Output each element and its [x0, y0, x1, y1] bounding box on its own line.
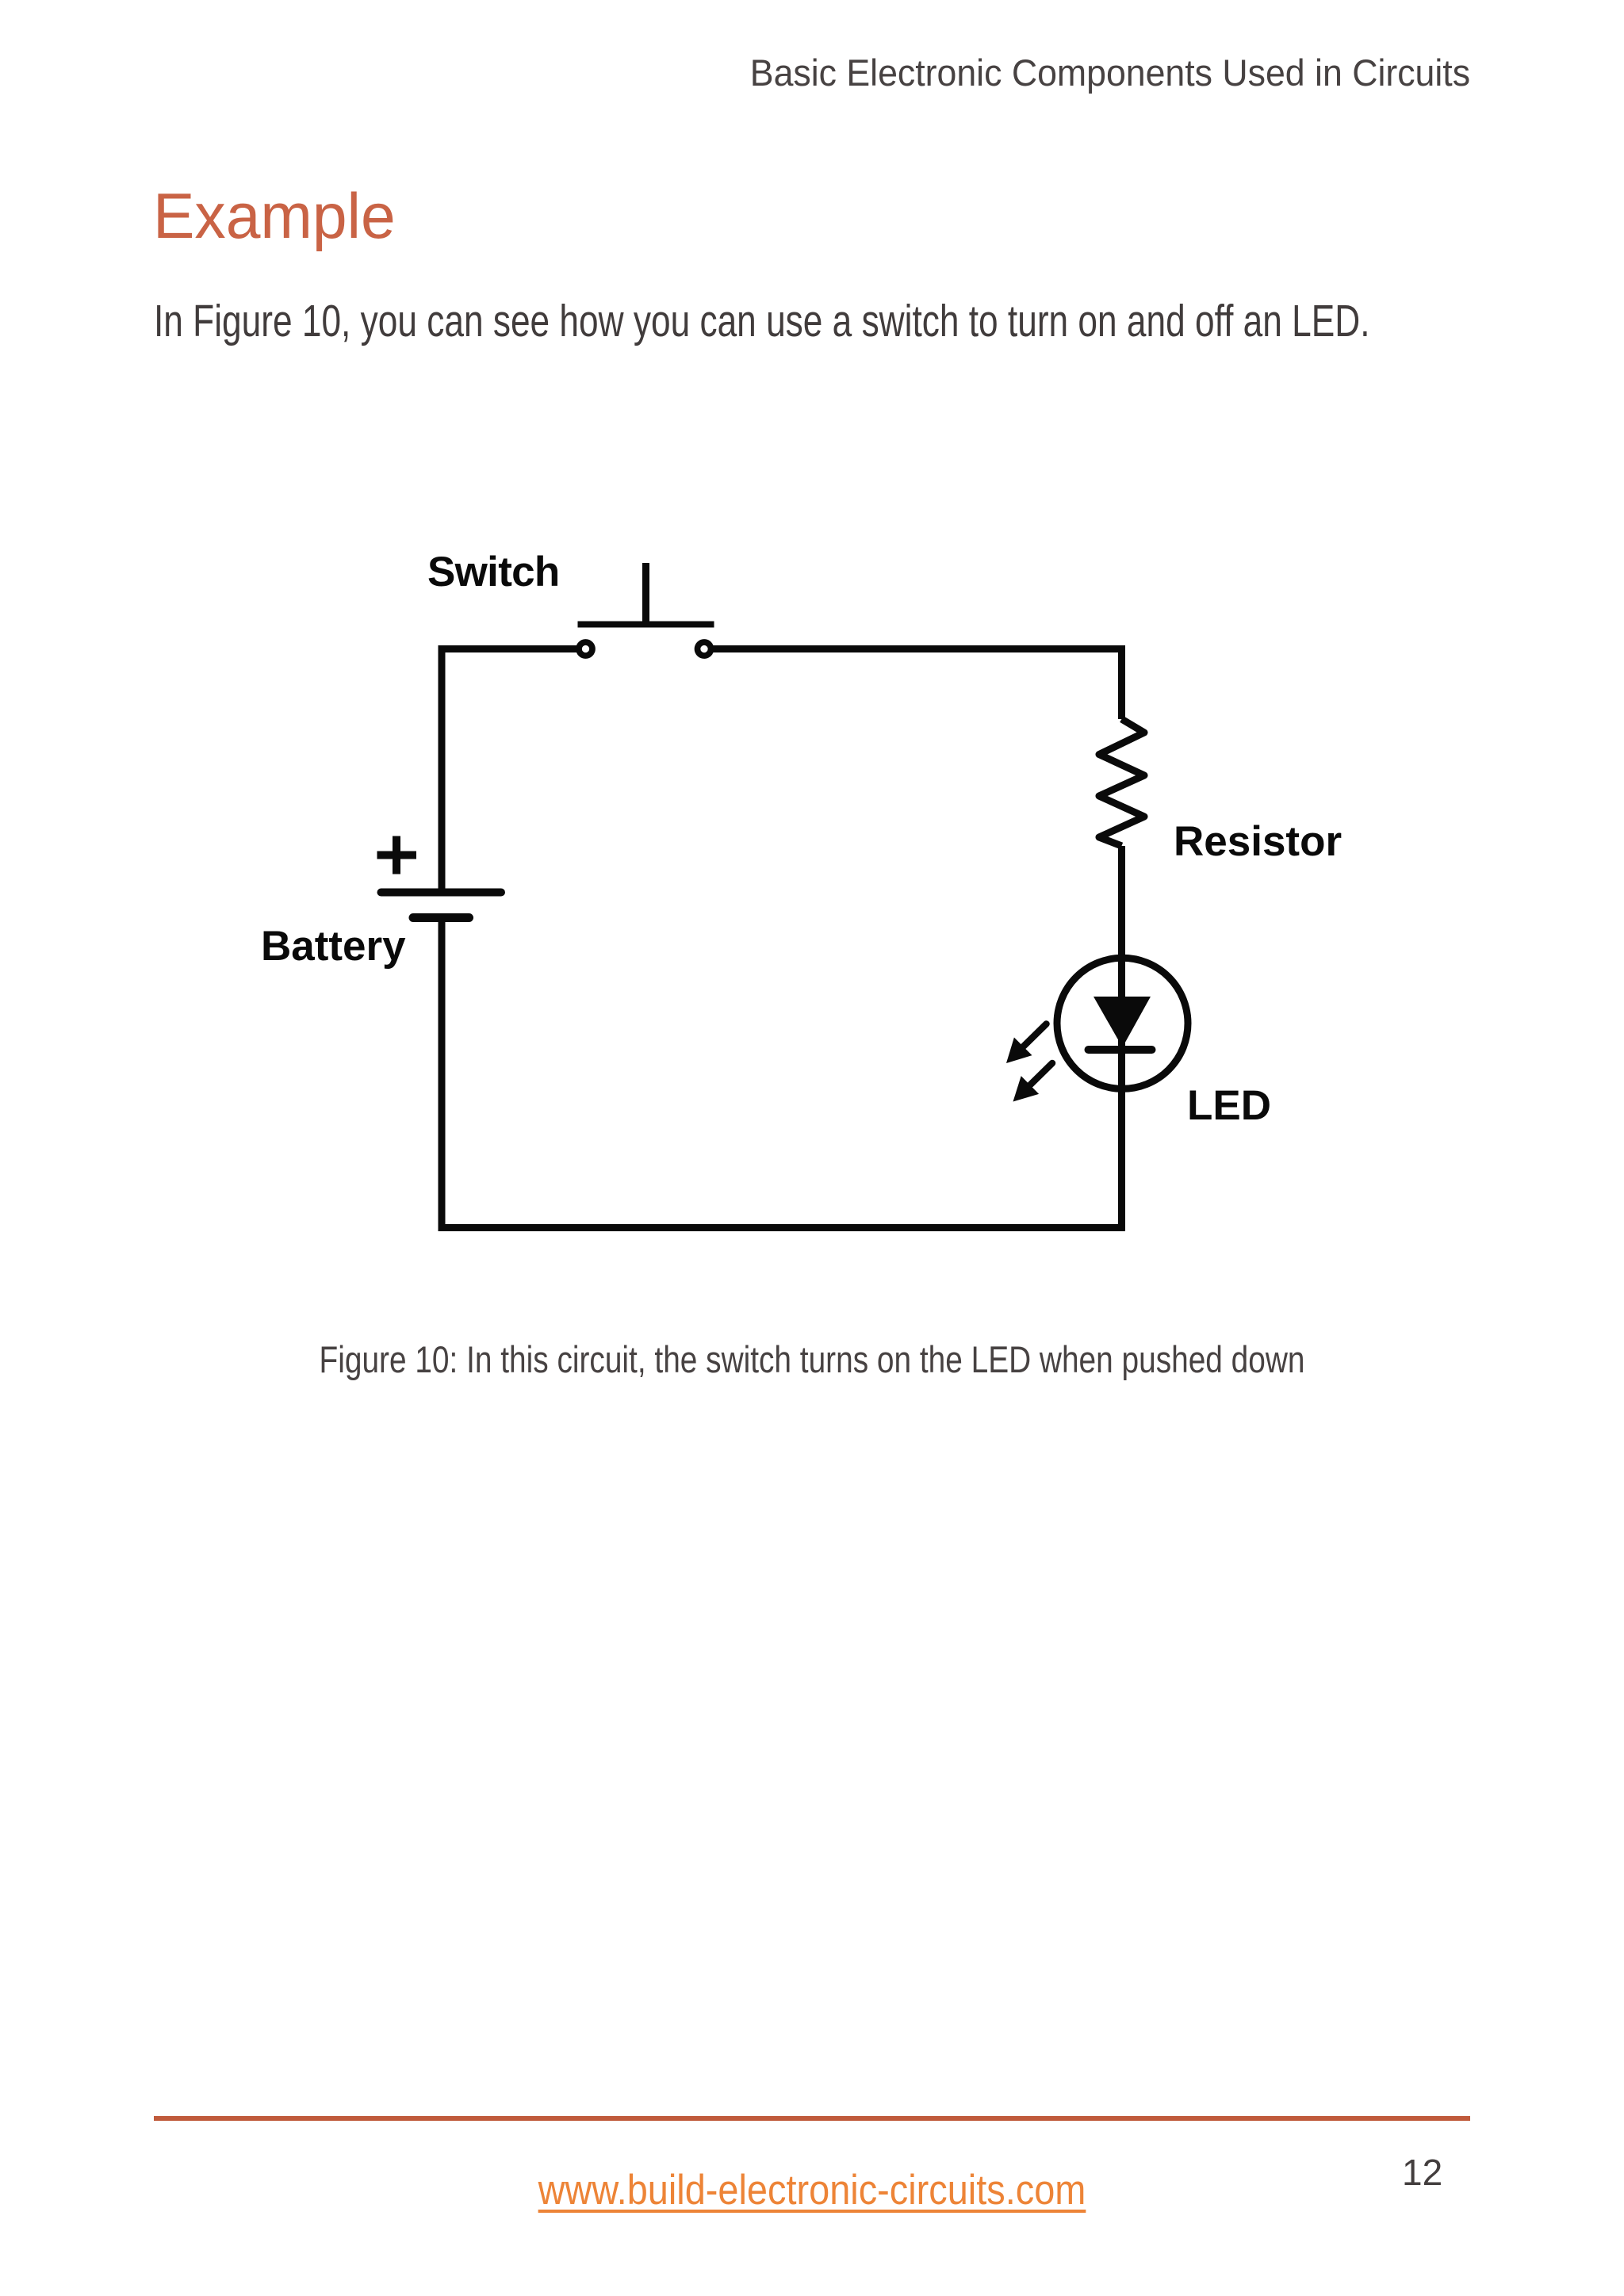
svg-text:Switch: Switch: [427, 549, 560, 595]
svg-text:LED: LED: [1187, 1082, 1271, 1129]
svg-text:Resistor: Resistor: [1174, 818, 1342, 865]
svg-text:Battery: Battery: [261, 923, 406, 970]
